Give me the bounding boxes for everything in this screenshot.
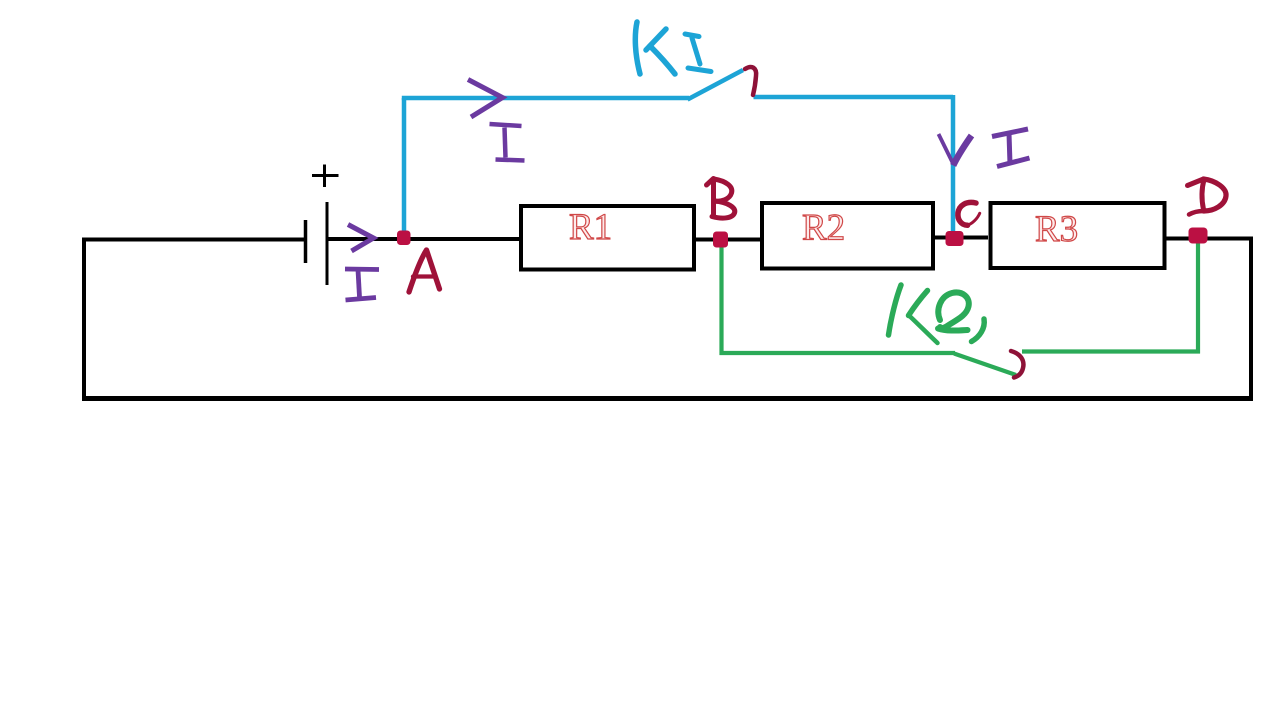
svg-text:R3: R3 [1035, 209, 1078, 250]
svg-text:R1: R1 [569, 207, 612, 248]
svg-text:R2: R2 [802, 208, 845, 249]
